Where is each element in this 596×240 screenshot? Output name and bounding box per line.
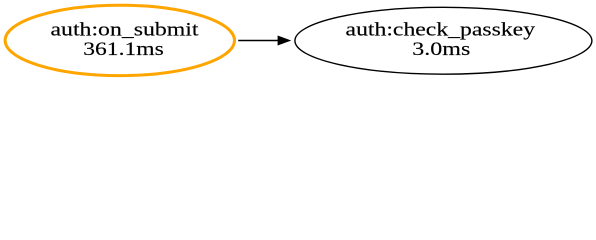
svg-text:361.1ms: 361.1ms — [83, 39, 164, 60]
node auth:on_submit (orange ellipse) — [5, 5, 234, 75]
edge wire auth:on_submit -> auth:check_passkey — [238, 40, 278, 42]
edge arrowhead — [278, 36, 290, 45]
svg-text:auth:check_passkey: auth:check_passkey — [346, 19, 536, 40]
svg-text:3.0ms: 3.0ms — [412, 39, 470, 60]
node auth:check_passkey (black ellipse) — [295, 7, 592, 74]
svg-text:auth:on_submit: auth:on_submit — [51, 19, 200, 40]
